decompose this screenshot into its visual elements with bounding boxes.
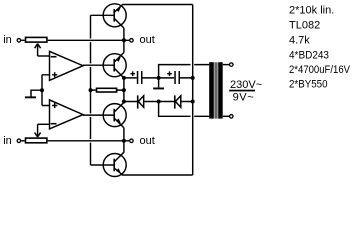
wire: top negative rail	[122, 4, 192, 6]
svg-text:out: out	[140, 135, 155, 147]
node: secondary diode junction	[157, 100, 161, 104]
node: C2 to rail junction	[191, 76, 195, 80]
potentiometer P1 wiper arrow	[35, 44, 41, 56]
op-amp U1b TL082	[50, 100, 84, 129]
node out1	[122, 38, 126, 42]
wire: Q3 emitter to out2	[123, 128, 125, 153]
out2 terminal	[130, 139, 134, 143]
wire: op-amp U1b output to Q3 base	[83, 114, 114, 116]
transformer primary top terminal	[223, 63, 233, 67]
out1 terminal	[130, 39, 134, 43]
wire: Q4 base lead	[91, 164, 115, 166]
svg-text:2*4700uF/16V: 2*4700uF/16V	[289, 64, 351, 76]
svg-text:2*10k lin.: 2*10k lin.	[289, 4, 334, 16]
node: +input ground junction	[40, 88, 44, 92]
transistor Q3 BD243	[103, 102, 126, 127]
wire: cap junction up to transformer secondary top	[159, 65, 210, 78]
wire: Q1 emitter to out1	[123, 28, 125, 53]
node: Q2 collector / C1 junction	[122, 76, 126, 80]
svg-text:4.7k: 4.7k	[289, 34, 310, 46]
svg-text:in: in	[3, 34, 12, 46]
node in2 terminal	[17, 139, 25, 143]
node: resistor left junction	[89, 88, 93, 92]
potentiometer P2 wiper arrow	[35, 124, 41, 137]
resistor R1 4.7k	[91, 88, 124, 92]
wire: P2 right end to out2 node	[48, 140, 129, 142]
potentiometer P2 10k lin body	[26, 138, 47, 143]
capacitor C1 4700uF/16V	[130, 71, 142, 84]
node out2	[122, 139, 126, 143]
wire: wiper to op-amp inverting input	[38, 55, 50, 57]
ground symbol (op-amp reference)	[25, 90, 42, 98]
ground symbol (supply center)	[153, 78, 164, 90]
wire: wiper2 to op-amp inverting input	[38, 123, 50, 125]
wire: P1 right end to out1 node	[48, 39, 129, 41]
wire: center column cap row to diode row	[123, 78, 125, 103]
wire: diode junction down to transformer secondary bottom	[159, 102, 210, 117]
node: diode D1 junction	[122, 100, 126, 104]
wire: bottom rail	[122, 174, 193, 176]
node: cap midpoint junction	[157, 76, 161, 80]
svg-text:4*BD243: 4*BD243	[289, 49, 329, 61]
svg-text:out: out	[140, 34, 155, 46]
op-amp U1a TL082	[50, 51, 84, 80]
node in1 terminal	[17, 39, 25, 43]
svg-text:230V~: 230V~	[230, 79, 262, 91]
label parts list	[289, 4, 351, 90]
svg-text:in: in	[3, 135, 12, 147]
potentiometer P1 10k lin body	[26, 37, 47, 42]
transistor Q2 BD243	[103, 53, 126, 78]
wire: non-inverting input column to ground	[42, 75, 50, 106]
svg-text:9V~: 9V~	[233, 91, 255, 103]
wire: cap row	[124, 77, 193, 79]
wire: Q1 base lead	[91, 14, 115, 16]
transistor Q4 BD243	[103, 152, 126, 176]
wire: right supply rail	[192, 5, 194, 176]
svg-text:2*BY550: 2*BY550	[289, 78, 328, 90]
diode D2 BY550	[175, 95, 181, 108]
transformer primary bottom terminal	[223, 115, 233, 119]
node: D2 to rail junction	[191, 100, 195, 104]
transistor Q1 BD243	[103, 4, 126, 28]
wire: op-amp U1a output to Q2 base	[83, 64, 114, 66]
capacitor C2 4700uF/16V	[167, 71, 180, 84]
wire: diode row	[124, 101, 193, 103]
transformer T1 windings	[209, 62, 223, 118]
label 230V~ / 9V~	[229, 79, 262, 103]
node: resistor right junction	[122, 88, 126, 92]
wire: bias column node B (breaks at crossings)	[90, 15, 92, 165]
diode D1 BY550	[138, 95, 144, 108]
svg-text:TL082: TL082	[289, 19, 320, 31]
